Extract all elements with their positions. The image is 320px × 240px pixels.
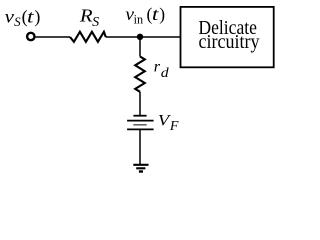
svg-text:S: S <box>92 15 99 30</box>
svg-text:F: F <box>169 119 179 134</box>
svg-text:d: d <box>161 66 170 81</box>
svg-text:): ) <box>159 4 165 24</box>
svg-text:circuitry: circuitry <box>199 31 260 53</box>
svg-text:R: R <box>79 6 93 26</box>
svg-text:v: v <box>5 7 14 27</box>
svg-text:S: S <box>14 14 21 29</box>
svg-text:in: in <box>134 13 143 27</box>
svg-text:): ) <box>34 7 40 28</box>
